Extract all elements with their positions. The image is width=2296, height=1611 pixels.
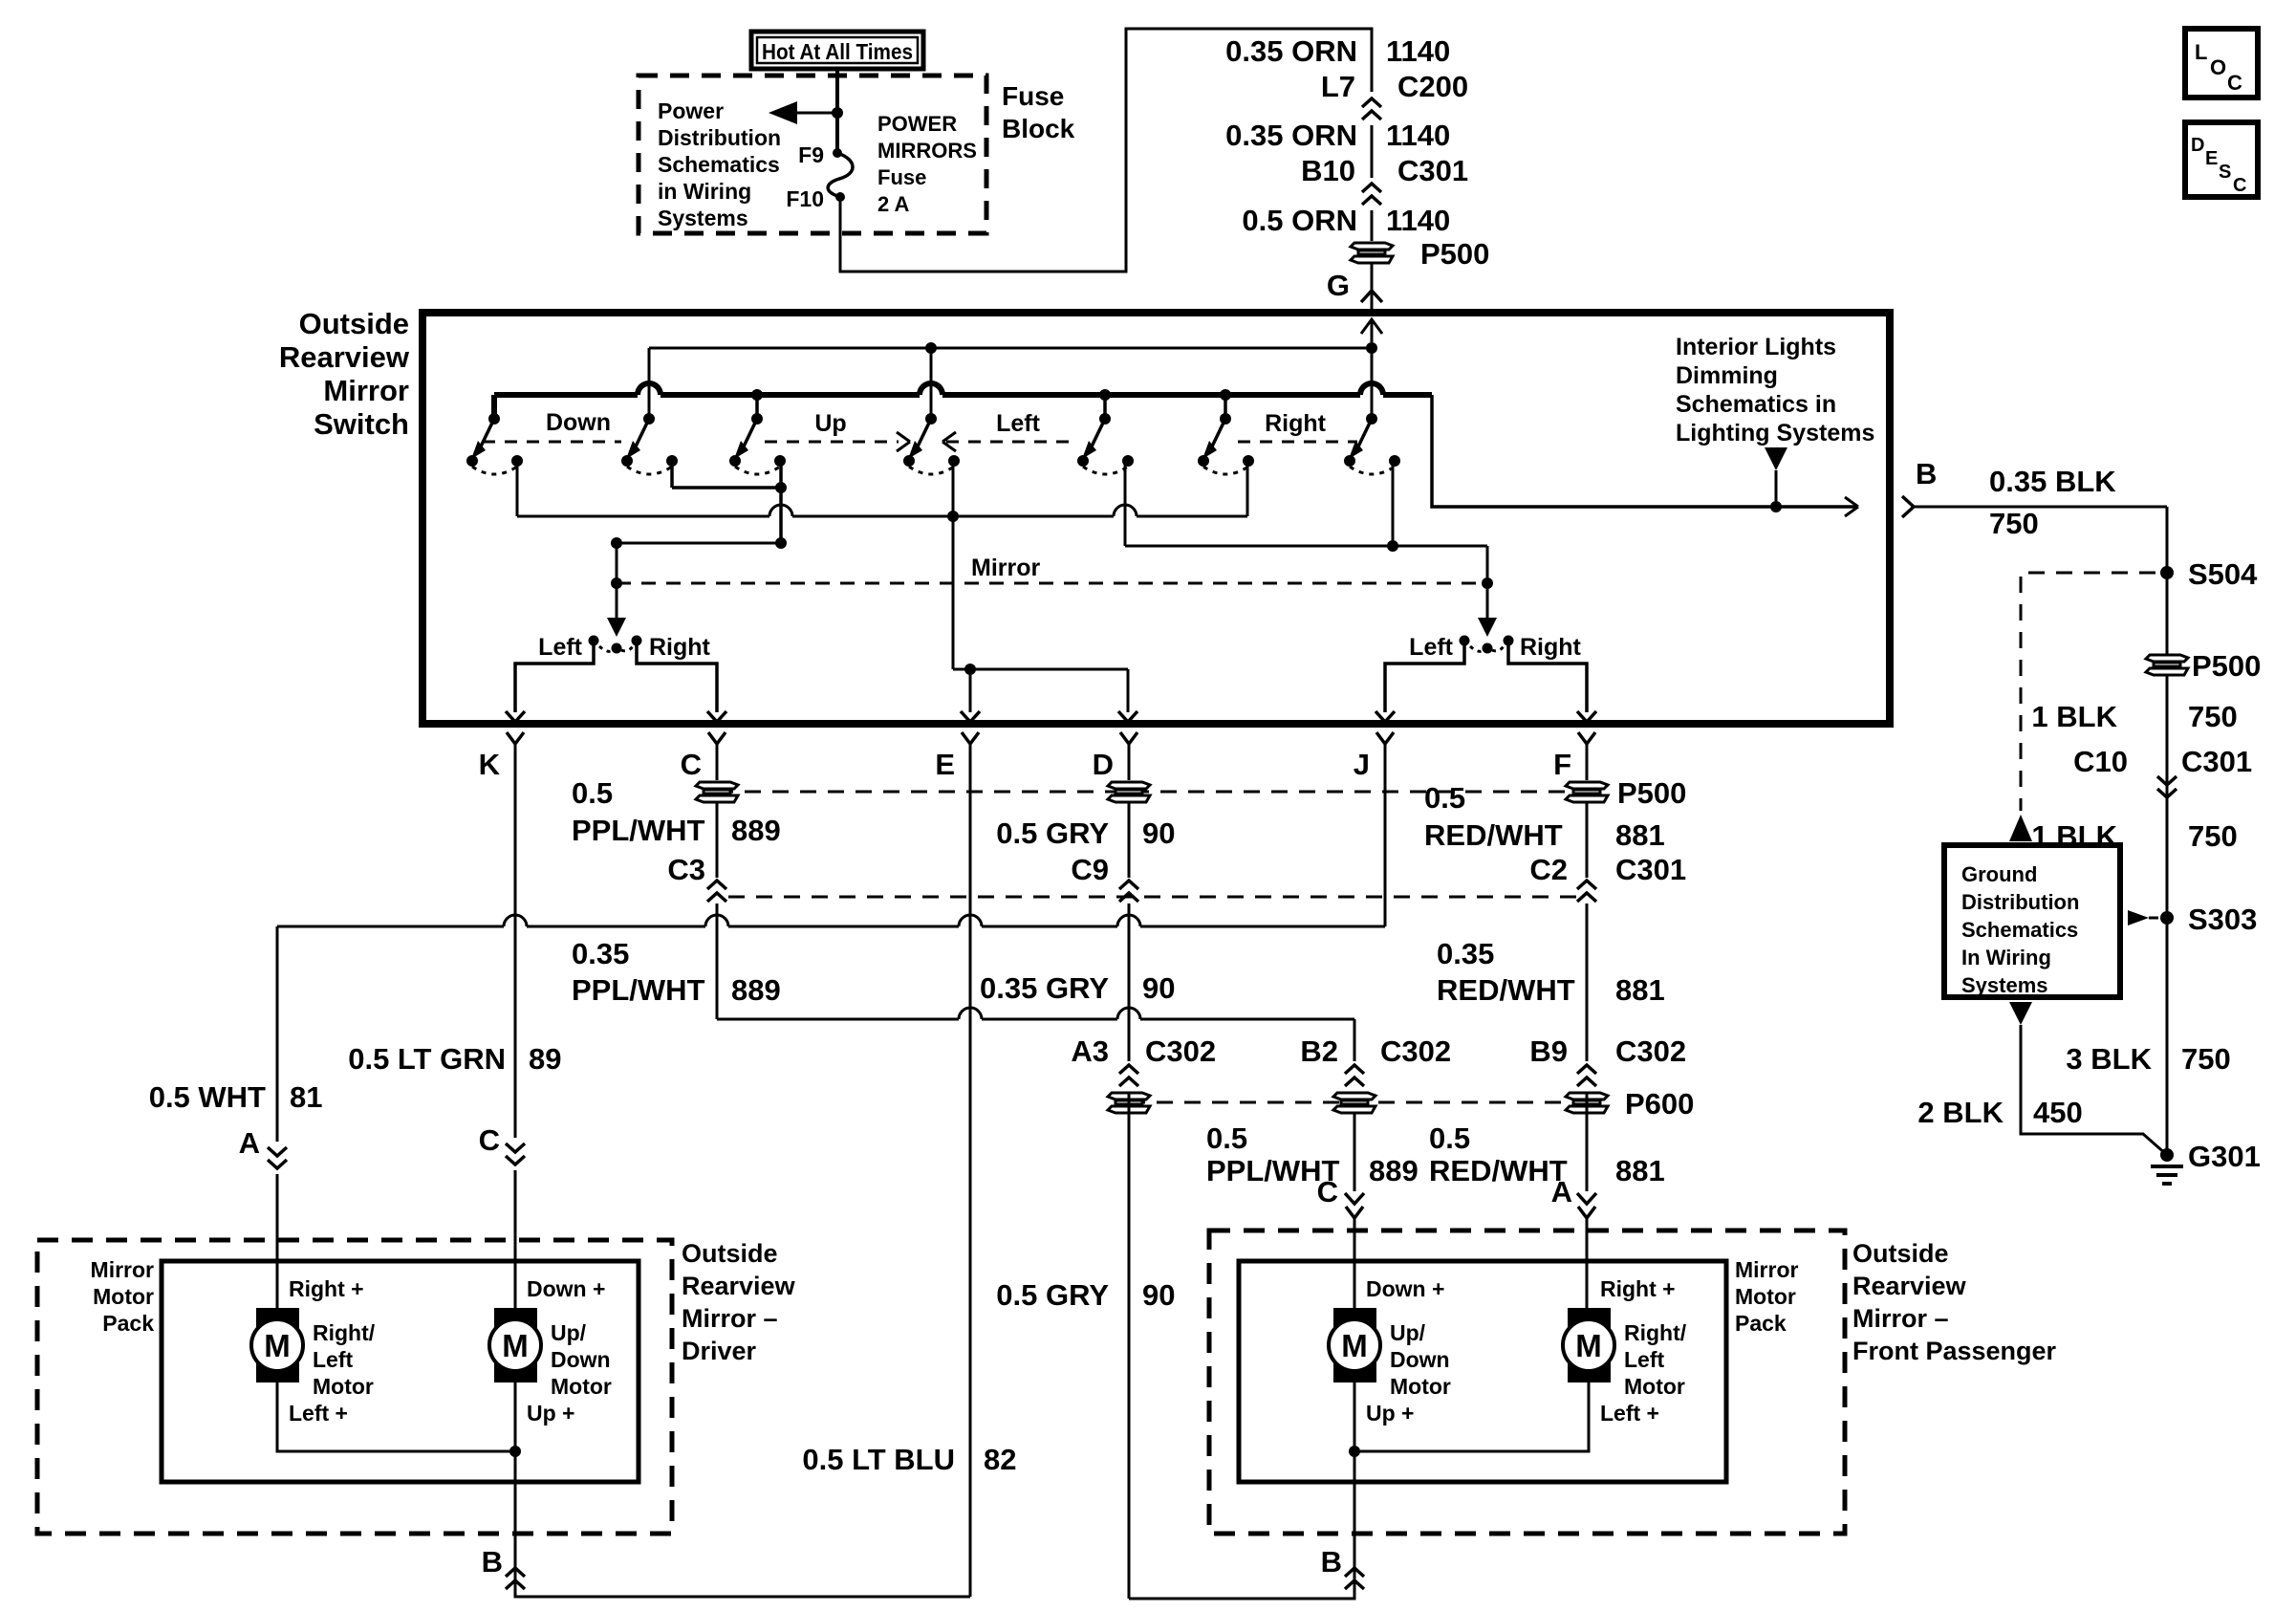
svg-text:In Wiring: In Wiring: [1961, 946, 2051, 969]
svg-text:E: E: [935, 748, 955, 781]
row A: [517, 515, 769, 518]
svg-text:Left +: Left +: [1600, 1401, 1659, 1426]
svg-text:1 BLK: 1 BLK: [2031, 700, 2117, 733]
svg-text:Outside: Outside: [299, 307, 409, 340]
svg-text:90: 90: [1142, 816, 1175, 850]
svg-text:F10: F10: [786, 186, 824, 211]
svg-text:Systems: Systems: [1961, 973, 2048, 997]
svg-text:Down: Down: [1390, 1347, 1450, 1372]
svg-text:0.35 GRY: 0.35 GRY: [980, 971, 1109, 1005]
Hot At All Times box: [751, 32, 923, 69]
svg-text:G301: G301: [2188, 1140, 2261, 1173]
svg-text:Distribution: Distribution: [1961, 890, 2079, 914]
B output arrow: [1845, 497, 1858, 516]
wire F column RED/WHT: [1586, 744, 1589, 780]
svg-text:1140: 1140: [1386, 34, 1450, 68]
svg-text:C302: C302: [1380, 1034, 1451, 1068]
svg-text:81: 81: [290, 1080, 322, 1114]
svg-text:Down +: Down +: [1366, 1276, 1444, 1301]
svg-text:L: L: [2195, 40, 2207, 64]
svg-text:0.5: 0.5: [572, 776, 613, 810]
svg-text:C: C: [681, 748, 702, 781]
svg-text:RED/WHT: RED/WHT: [1429, 1154, 1568, 1187]
svg-text:B: B: [482, 1545, 503, 1578]
svg-text:Motor: Motor: [1735, 1284, 1796, 1309]
connector C2/C301 chevrons: [1577, 881, 1596, 902]
svg-text:M: M: [264, 1328, 291, 1363]
svg-text:3 BLK: 3 BLK: [2066, 1042, 2152, 1076]
wire to left mirror select: [616, 543, 618, 626]
svg-text:Up +: Up +: [1366, 1401, 1414, 1426]
switch lever sw1 down-left: [488, 413, 500, 425]
svg-text:Schematics: Schematics: [1961, 918, 2078, 942]
svg-text:Rearview: Rearview: [1852, 1272, 1967, 1300]
switch lever sw7 right-right: [1366, 413, 1377, 425]
svg-text:MIRRORS: MIRRORS: [877, 139, 977, 163]
right vertical BLK wire: [2166, 507, 2169, 1155]
wire from Hot box down to fuse: [835, 69, 839, 153]
bus to B output: [1432, 395, 1858, 507]
ground G301: [2160, 1148, 2174, 1162]
feed line top: [649, 347, 1372, 350]
svg-text:C2: C2: [1529, 853, 1568, 886]
fuse block dashed box: [639, 76, 986, 233]
svg-text:F9: F9: [798, 142, 824, 167]
svg-text:0.35 BLK: 0.35 BLK: [1989, 465, 2116, 498]
svg-text:D: D: [1093, 748, 1114, 781]
svg-text:M: M: [1575, 1328, 1602, 1363]
DESC legend box: [2185, 122, 2258, 197]
splice S504: [2160, 566, 2174, 579]
svg-text:889: 889: [731, 814, 781, 847]
svg-text:RED/WHT: RED/WHT: [1437, 973, 1575, 1007]
svg-text:K: K: [479, 748, 501, 781]
svg-text:E: E: [2205, 148, 2218, 169]
svg-text:C302: C302: [1615, 1034, 1686, 1068]
right mirror select switch: [1460, 636, 1470, 646]
connector P500 top: [1351, 243, 1393, 263]
svg-text:Rearview: Rearview: [279, 340, 410, 374]
svg-text:C301: C301: [2181, 745, 2252, 778]
svg-text:P500: P500: [1617, 776, 1686, 810]
svg-text:Motor: Motor: [551, 1374, 612, 1399]
left mirror select switch: [589, 636, 599, 646]
connector P500 right: [2146, 655, 2188, 675]
svg-text:Switch: Switch: [314, 407, 409, 441]
svg-text:0.5 LT GRN: 0.5 LT GRN: [348, 1042, 506, 1076]
svg-text:Left: Left: [538, 634, 583, 661]
svg-text:C301: C301: [1397, 154, 1468, 187]
svg-text:C: C: [1317, 1175, 1338, 1208]
svg-text:Up/: Up/: [551, 1320, 587, 1345]
connector C200 chevrons: [1362, 98, 1381, 120]
svg-text:750: 750: [2188, 819, 2238, 853]
wire sw1R to row A: [516, 461, 519, 516]
connector C10/C301 chevrons: [2157, 776, 2177, 797]
svg-text:Schematics: Schematics: [658, 152, 780, 177]
svg-text:0.5: 0.5: [1424, 781, 1465, 815]
svg-text:Lighting Systems: Lighting Systems: [1676, 420, 1874, 446]
svg-text:Motor: Motor: [1624, 1374, 1685, 1399]
svg-text:1140: 1140: [1386, 119, 1450, 152]
svg-text:PPL/WHT: PPL/WHT: [572, 973, 705, 1007]
svg-text:Mirror: Mirror: [323, 374, 409, 407]
svg-text:Right: Right: [1265, 410, 1327, 437]
switch lever sw3 up-left: [751, 413, 763, 425]
svg-text:889: 889: [1369, 1154, 1419, 1187]
svg-text:Mirror: Mirror: [971, 555, 1041, 581]
arrow from ground box to S303: [2128, 910, 2149, 925]
svg-text:O: O: [2210, 55, 2226, 79]
passenger motor pack box: [1239, 1261, 1726, 1482]
svg-text:Outside: Outside: [682, 1239, 778, 1268]
svg-text:881: 881: [1615, 973, 1665, 1007]
svg-text:Front Passenger: Front Passenger: [1852, 1337, 2057, 1365]
svg-text:Right +: Right +: [1600, 1276, 1676, 1301]
svg-text:2 A: 2 A: [877, 192, 910, 216]
svg-text:B9: B9: [1529, 1034, 1568, 1068]
svg-text:90: 90: [1142, 1278, 1175, 1312]
svg-text:0.5: 0.5: [1429, 1121, 1470, 1155]
connector C301 row dashed: [728, 896, 1587, 899]
svg-text:J: J: [1354, 748, 1370, 781]
wire C column PPL/WHT: [716, 744, 719, 780]
svg-text:0.35 ORN: 0.35 ORN: [1225, 34, 1357, 68]
driver B to E column (LT BLU) wire: [515, 1568, 970, 1597]
svg-text:S504: S504: [2188, 557, 2258, 591]
svg-text:0.35: 0.35: [572, 937, 629, 970]
svg-text:Right: Right: [649, 634, 711, 661]
connector B9/C302 chevrons: [1577, 1065, 1596, 1086]
svg-text:82: 82: [984, 1443, 1016, 1476]
svg-text:Interior Lights: Interior Lights: [1676, 334, 1836, 360]
pin B fork: [1902, 496, 1914, 517]
wire sw5R down to row C: [1124, 461, 1127, 546]
wire D column GRY: [1128, 744, 1131, 780]
svg-text:P500: P500: [1420, 237, 1489, 271]
svg-text:M: M: [502, 1328, 529, 1363]
line 2: C to passenger C (PPL/WHT): [717, 1018, 959, 1021]
svg-text:Mirror: Mirror: [1735, 1257, 1799, 1282]
passenger B to D column (GRY) wire: [1129, 1568, 1354, 1599]
connector A3/C302 chevrons: [1119, 1065, 1138, 1086]
svg-text:D: D: [2191, 135, 2204, 156]
svg-text:C200: C200: [1397, 70, 1468, 103]
wire sw2R down and over: [670, 461, 674, 488]
svg-text:Left +: Left +: [289, 1401, 348, 1426]
svg-text:0.5 GRY: 0.5 GRY: [996, 1278, 1109, 1312]
svg-text:M: M: [1341, 1328, 1368, 1363]
svg-text:Down: Down: [546, 409, 611, 436]
motor M right/left driver: [256, 1308, 299, 1333]
svg-text:90: 90: [1142, 971, 1175, 1005]
svg-text:Right/: Right/: [313, 1320, 376, 1345]
Outside Rearview Mirror Front Passenger dashed box: [1209, 1230, 1845, 1534]
svg-text:in Wiring: in Wiring: [658, 179, 751, 204]
svg-text:Right: Right: [1520, 634, 1582, 661]
wire K column LT GRN: [514, 744, 517, 1138]
svg-text:Left: Left: [1624, 1347, 1665, 1372]
svg-text:Up +: Up +: [527, 1401, 574, 1426]
svg-text:Up: Up: [814, 410, 846, 437]
svg-text:B2: B2: [1300, 1034, 1338, 1068]
svg-text:PPL/WHT: PPL/WHT: [572, 814, 705, 847]
connector C9/C301 chevrons: [1119, 881, 1138, 902]
svg-text:Down: Down: [551, 1347, 611, 1372]
svg-text:450: 450: [2033, 1096, 2083, 1129]
svg-text:Mirror: Mirror: [91, 1257, 155, 1282]
connector P600 row dashed: [1129, 1101, 1587, 1104]
connector P500 row dashed: [717, 791, 1587, 794]
svg-text:S303: S303: [2188, 903, 2257, 936]
svg-text:Hot At All Times: Hot At All Times: [762, 39, 913, 64]
svg-text:Ground: Ground: [1961, 862, 2037, 886]
svg-text:Schematics in: Schematics in: [1676, 391, 1836, 418]
Ground Distribution box: [1944, 845, 2120, 997]
connector C301 chevrons: [1362, 184, 1381, 205]
svg-text:Left: Left: [996, 410, 1041, 437]
svg-text:A3: A3: [1071, 1034, 1109, 1068]
svg-text:C: C: [2227, 71, 2242, 95]
svg-text:Motor: Motor: [93, 1284, 154, 1309]
LOC legend box: [2185, 29, 2258, 98]
svg-text:0.35: 0.35: [1437, 937, 1494, 970]
Outside Rearview Mirror Driver dashed box: [37, 1240, 672, 1534]
switch lever sw4 up-right: [925, 413, 937, 425]
svg-text:C302: C302: [1145, 1034, 1216, 1068]
svg-text:P500: P500: [2192, 649, 2261, 683]
svg-text:A: A: [1551, 1175, 1572, 1208]
wire to right mirror select: [1486, 546, 1489, 626]
svg-text:0.5 ORN: 0.5 ORN: [1242, 204, 1357, 237]
line J to driver A (WHT): [1384, 755, 1387, 926]
svg-text:Right/: Right/: [1624, 1320, 1687, 1345]
Outside Rearview Mirror Switch box: [422, 313, 1890, 724]
svg-text:Fuse: Fuse: [877, 165, 926, 189]
svg-text:L7: L7: [1321, 70, 1355, 103]
passenger motors common wire: [1354, 1382, 1589, 1451]
Mirror linkage dashed: [617, 582, 1487, 585]
switch lever sw2 down-right: [643, 413, 655, 425]
svg-text:C: C: [2233, 175, 2246, 196]
svg-text:Dimming: Dimming: [1676, 362, 1778, 389]
wire E column (GRY to LT BLU): [969, 744, 972, 1597]
svg-text:1140: 1140: [1386, 204, 1450, 237]
svg-text:P600: P600: [1625, 1087, 1694, 1121]
svg-text:Up/: Up/: [1390, 1320, 1426, 1345]
svg-text:750: 750: [2188, 700, 2238, 733]
svg-text:89: 89: [529, 1042, 561, 1076]
svg-text:881: 881: [1615, 1154, 1665, 1187]
svg-text:0.5 LT BLU: 0.5 LT BLU: [802, 1443, 955, 1476]
svg-text:RED/WHT: RED/WHT: [1424, 818, 1563, 852]
svg-text:F: F: [1553, 748, 1571, 781]
svg-text:POWER: POWER: [877, 112, 957, 136]
svg-text:G: G: [1327, 269, 1350, 302]
svg-text:Rearview: Rearview: [682, 1272, 796, 1300]
svg-text:Pack: Pack: [1735, 1311, 1787, 1336]
svg-text:Mirror –: Mirror –: [1852, 1304, 1949, 1333]
switch lever sw6 right-left: [1220, 413, 1231, 425]
svg-text:Left: Left: [313, 1347, 354, 1372]
row C: [1125, 545, 1487, 548]
connector C3/C301 chevrons: [707, 881, 726, 902]
svg-text:0.5 GRY: 0.5 GRY: [996, 816, 1109, 850]
svg-text:Right +: Right +: [289, 1276, 364, 1301]
svg-text:Mirror –: Mirror –: [682, 1304, 778, 1333]
motor M right/left passenger: [1568, 1308, 1611, 1333]
svg-text:C301: C301: [1615, 853, 1686, 886]
svg-text:Motor: Motor: [313, 1374, 374, 1399]
svg-text:Down +: Down +: [527, 1276, 605, 1301]
svg-text:Power: Power: [658, 98, 724, 123]
driver motor pack box: [162, 1261, 639, 1482]
arrow to power distribution: [784, 112, 837, 115]
svg-text:C: C: [479, 1123, 500, 1157]
wire sw4R down to E and D pins: [952, 461, 955, 669]
svg-text:Systems: Systems: [658, 206, 748, 230]
svg-text:B: B: [1321, 1545, 1342, 1578]
svg-text:B10: B10: [1301, 154, 1355, 187]
svg-text:Left: Left: [1409, 634, 1454, 661]
motor M up/down passenger: [1333, 1308, 1376, 1333]
svg-text:Driver: Driver: [682, 1337, 757, 1365]
svg-text:C3: C3: [667, 853, 705, 886]
svg-text:C10: C10: [2073, 745, 2128, 778]
main bus (thick): [494, 392, 638, 398]
svg-text:0.5 WHT: 0.5 WHT: [149, 1080, 266, 1114]
wire sw3R down: [779, 461, 783, 543]
pin G chevron: [1361, 291, 1382, 302]
svg-text:Distribution: Distribution: [658, 125, 781, 150]
row B: [617, 542, 781, 545]
switch lever sw5 left: [1099, 413, 1111, 425]
svg-text:Block: Block: [1002, 114, 1075, 143]
svg-text:2 BLK: 2 BLK: [1917, 1096, 2004, 1129]
svg-text:0.5: 0.5: [1206, 1121, 1247, 1155]
svg-text:889: 889: [731, 973, 781, 1007]
svg-text:Outside: Outside: [1852, 1239, 1949, 1268]
svg-text:Motor: Motor: [1390, 1374, 1451, 1399]
svg-text:0.35 ORN: 0.35 ORN: [1225, 119, 1357, 152]
svg-text:B: B: [1916, 457, 1937, 490]
svg-text:A: A: [239, 1126, 260, 1160]
dashed branch to ground distribution: [2021, 573, 2155, 811]
splice S303: [2160, 911, 2174, 925]
svg-text:750: 750: [1989, 507, 2039, 540]
wire from fuse to ORN feed: [840, 29, 1372, 272]
driver motors common wire: [277, 1382, 515, 1451]
motor M up/down driver: [494, 1308, 537, 1333]
svg-text:750: 750: [2181, 1042, 2231, 1076]
wire below ground box: [2009, 1002, 2032, 1025]
svg-text:C9: C9: [1071, 853, 1109, 886]
svg-text:S: S: [2219, 162, 2231, 183]
svg-text:881: 881: [1615, 818, 1665, 852]
svg-text:Pack: Pack: [102, 1311, 154, 1336]
pin G entry arrow: [1361, 319, 1382, 334]
svg-text:Fuse: Fuse: [1002, 81, 1064, 111]
